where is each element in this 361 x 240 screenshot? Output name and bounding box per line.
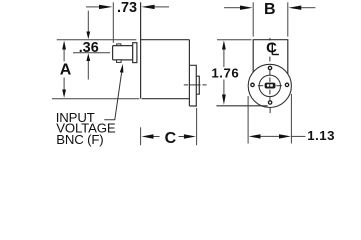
svg-text:1.76: 1.76 bbox=[211, 66, 239, 81]
svg-text:B: B bbox=[264, 1, 276, 18]
bayonet hole right bbox=[285, 83, 288, 86]
body side view bbox=[141, 2, 190, 106]
BNC flange circle end view bbox=[248, 64, 291, 107]
dimension 1.13 bbox=[248, 94, 305, 144]
end view body bbox=[216, 40, 287, 106]
flange centerline bbox=[184, 84, 207, 86]
BNC bayonet pin top bbox=[117, 44, 121, 46]
svg-text:.73: .73 bbox=[117, 0, 137, 16]
leader INPUT VOLTAGE bbox=[104, 73, 121, 120]
dimension C bbox=[141, 108, 197, 145]
dimension A bbox=[52, 40, 139, 99]
center contact slot bbox=[265, 83, 276, 89]
dimension .36 bbox=[73, 11, 110, 80]
bayonet hole left bbox=[251, 83, 254, 86]
boss side view bbox=[196, 76, 199, 94]
bayonet hole top bbox=[268, 66, 271, 69]
svg-text:.36: .36 bbox=[79, 40, 99, 56]
svg-text:A: A bbox=[60, 62, 72, 79]
bayonet hole bottom bbox=[268, 101, 271, 104]
dimension B bbox=[224, 2, 315, 36]
BNC connector barrel side view bbox=[113, 46, 133, 60]
svg-text:1.13: 1.13 bbox=[307, 128, 335, 143]
centerline horizontal end view bbox=[258, 85, 282, 87]
svg-text:BNC (F): BNC (F) bbox=[56, 132, 103, 147]
dimension .73 bbox=[86, 2, 169, 43]
BNC bayonet pin bottom bbox=[117, 60, 122, 63]
BNC middle circle end view bbox=[259, 75, 280, 96]
dimension 1.76 bbox=[217, 40, 252, 95]
svg-text:C: C bbox=[165, 130, 177, 147]
mounting flange side view bbox=[189, 65, 196, 106]
BNC collar side view bbox=[133, 43, 137, 63]
centerline vertical end view bbox=[269, 38, 271, 113]
